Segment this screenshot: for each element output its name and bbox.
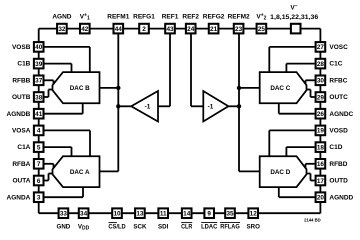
svg-text:REFM1: REFM1 <box>107 14 129 21</box>
svg-text:9: 9 <box>207 211 211 218</box>
svg-text:39: 39 <box>35 61 43 68</box>
svg-text:20: 20 <box>317 195 325 202</box>
svg-text:OUTC: OUTC <box>329 94 348 101</box>
svg-text:OUTD: OUTD <box>329 178 348 185</box>
svg-text:33: 33 <box>60 211 68 218</box>
svg-text:DAC D: DAC D <box>270 169 290 176</box>
svg-text:35: 35 <box>226 211 234 218</box>
svg-text:SCK: SCK <box>133 224 147 231</box>
svg-text:DAC A: DAC A <box>70 169 90 176</box>
svg-text:REFM2: REFM2 <box>228 14 250 21</box>
svg-text:AGNDB: AGNDB <box>7 111 31 118</box>
svg-text:4: 4 <box>37 128 41 135</box>
svg-text:RFBC: RFBC <box>329 77 347 84</box>
svg-text:2144 BD: 2144 BD <box>304 217 321 222</box>
svg-text:44: 44 <box>115 26 123 33</box>
svg-text:VOSD: VOSD <box>329 128 348 135</box>
svg-text:10: 10 <box>113 211 121 218</box>
svg-text:16: 16 <box>317 161 325 168</box>
svg-text:REFG2: REFG2 <box>203 14 225 21</box>
svg-text:RFBA: RFBA <box>12 161 30 168</box>
svg-text:RFBD: RFBD <box>329 161 347 168</box>
svg-text:14: 14 <box>183 211 191 218</box>
svg-text:41: 41 <box>35 111 43 118</box>
svg-text:42: 42 <box>81 26 89 33</box>
svg-text:REFG1: REFG1 <box>133 14 155 21</box>
svg-text:C1B: C1B <box>17 61 30 68</box>
svg-text:1,8,15,22,31,36: 1,8,15,22,31,36 <box>270 14 318 21</box>
svg-text:32: 32 <box>58 26 66 33</box>
svg-text:34: 34 <box>80 211 88 218</box>
svg-text:AGND: AGND <box>52 14 71 21</box>
svg-text:AGNDC: AGNDC <box>329 111 353 118</box>
svg-text:7: 7 <box>37 161 41 168</box>
svg-text:28: 28 <box>317 61 325 68</box>
svg-text:RFBB: RFBB <box>12 77 30 84</box>
svg-text:AGNDA: AGNDA <box>7 194 31 201</box>
svg-text:26: 26 <box>317 111 325 118</box>
svg-text:24: 24 <box>187 26 195 33</box>
svg-text:12: 12 <box>250 211 258 218</box>
svg-text:AGNDD: AGNDD <box>329 194 353 201</box>
svg-text:3: 3 <box>37 195 41 202</box>
svg-text:CLR: CLR <box>181 224 193 231</box>
svg-text:27: 27 <box>317 44 325 51</box>
svg-text:SDI: SDI <box>158 224 169 231</box>
svg-text:C1C: C1C <box>329 61 342 68</box>
svg-text:5: 5 <box>37 144 41 151</box>
svg-text:40: 40 <box>35 44 43 51</box>
svg-text:DAC B: DAC B <box>70 85 90 92</box>
svg-text:19: 19 <box>317 128 325 135</box>
svg-text:21: 21 <box>210 26 218 33</box>
svg-text:OUTB: OUTB <box>12 94 31 101</box>
svg-text:17: 17 <box>317 178 325 185</box>
svg-text:RFLAG: RFLAG <box>220 224 240 231</box>
svg-text:13: 13 <box>136 211 144 218</box>
svg-text:VOSA: VOSA <box>12 128 31 135</box>
svg-text:C1A: C1A <box>17 144 30 151</box>
svg-text:CS/LD: CS/LD <box>108 224 126 231</box>
svg-text:18: 18 <box>317 144 325 151</box>
svg-text:25: 25 <box>258 26 266 33</box>
svg-text:SRO: SRO <box>246 224 260 231</box>
svg-text:11: 11 <box>160 211 167 218</box>
svg-text:VOSB: VOSB <box>12 44 31 51</box>
svg-text:23: 23 <box>235 26 243 33</box>
svg-text:REF1: REF1 <box>162 14 179 21</box>
svg-text:-1: -1 <box>145 104 151 111</box>
svg-text:GND: GND <box>57 224 71 231</box>
svg-text:6: 6 <box>37 178 41 185</box>
svg-text:LDAC: LDAC <box>201 224 218 231</box>
svg-text:29: 29 <box>317 94 325 101</box>
svg-text:37: 37 <box>35 78 43 85</box>
svg-text:2: 2 <box>142 26 146 33</box>
svg-text:38: 38 <box>35 94 43 101</box>
svg-text:OUTA: OUTA <box>12 178 30 185</box>
svg-text:VOSC: VOSC <box>329 44 348 51</box>
svg-text:-1: -1 <box>208 104 214 111</box>
svg-text:30: 30 <box>317 78 325 85</box>
svg-text:REF2: REF2 <box>182 14 199 21</box>
svg-text:C1D: C1D <box>329 144 342 151</box>
svg-text:43: 43 <box>166 26 174 33</box>
svg-text:DAC C: DAC C <box>270 85 290 92</box>
